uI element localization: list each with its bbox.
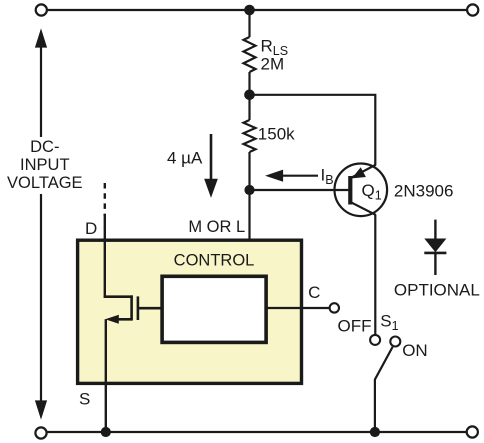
transistor Q1 xyxy=(335,164,388,217)
svg-text:DC-: DC- xyxy=(30,138,59,156)
wire collector down xyxy=(374,215,376,335)
resistor R_LS xyxy=(244,37,256,72)
svg-text:INPUT: INPUT xyxy=(20,156,70,174)
wire drain solid xyxy=(104,214,106,298)
svg-text:OPTIONAL: OPTIONAL xyxy=(394,280,480,299)
wire emitter feed horizontal xyxy=(250,95,376,165)
switch S1 contact OFF xyxy=(370,335,380,345)
svg-text:S: S xyxy=(79,390,90,409)
terminal top-right xyxy=(467,4,478,15)
terminal bottom-right xyxy=(467,426,478,437)
terminal top-left xyxy=(36,4,47,15)
junction dot top rail xyxy=(244,5,255,16)
svg-text:IB: IB xyxy=(321,166,334,188)
svg-text:M OR L: M OR L xyxy=(188,218,245,236)
switch S1 contact ON xyxy=(390,337,400,347)
arrow 4uA down xyxy=(206,134,216,194)
label DC-INPUT VOLTAGE xyxy=(7,138,83,192)
mosfet Q2 xyxy=(104,295,161,320)
arrow I_B xyxy=(269,171,319,180)
svg-text:S1: S1 xyxy=(380,312,398,334)
svg-text:2M: 2M xyxy=(261,55,285,74)
svg-text:D: D xyxy=(85,219,97,238)
control box xyxy=(78,240,302,383)
junction dot between resistors xyxy=(244,90,255,101)
wire C pin xyxy=(266,307,329,309)
wire drain dashed xyxy=(104,183,106,216)
svg-text:ON: ON xyxy=(402,341,428,360)
svg-text:Q1: Q1 xyxy=(362,181,382,203)
control inner block xyxy=(162,276,266,342)
svg-text:4 µA: 4 µA xyxy=(167,149,203,168)
svg-text:CONTROL: CONTROL xyxy=(174,252,255,270)
arrow DC input up xyxy=(36,32,45,137)
wire bottom rail xyxy=(47,431,466,433)
terminal C xyxy=(330,303,339,312)
wire main vertical top segment xyxy=(248,10,250,37)
junction dot S pin bottom xyxy=(101,427,111,437)
junction dot bottom rail xyxy=(370,427,380,437)
wire source xyxy=(105,319,107,432)
diode optional xyxy=(424,220,446,275)
svg-text:150k: 150k xyxy=(258,125,295,144)
resistor 150k xyxy=(244,120,256,152)
svg-text:C: C xyxy=(308,283,320,302)
wire base xyxy=(250,189,351,191)
mosfet source arrowhead xyxy=(105,315,119,324)
svg-text:2N3906: 2N3906 xyxy=(394,181,454,200)
arrow DC input down xyxy=(36,194,45,416)
wire between resistors xyxy=(248,72,250,120)
wire main vertical to M OR L pin xyxy=(248,152,250,239)
junction dot base node xyxy=(244,185,254,195)
wire top rail xyxy=(48,9,467,11)
terminal bottom-left xyxy=(35,427,46,438)
svg-text:VOLTAGE: VOLTAGE xyxy=(7,174,83,192)
svg-text:OFF: OFF xyxy=(338,317,372,336)
switch arm wire xyxy=(375,347,393,432)
